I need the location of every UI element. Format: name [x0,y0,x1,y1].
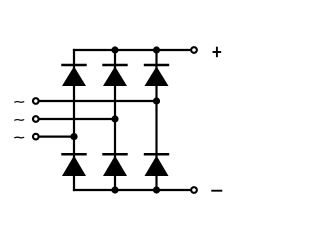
diode upper 2 [102,65,127,86]
junction dot: top rail / leg 2 [111,46,118,53]
wire: AC phase 3 horizontal [39,136,75,138]
label: ~ AC symbol 1 [14,101,24,104]
terminal: DC + output [191,47,197,53]
junction dot: AC phase 3 / leg 1 [70,133,77,140]
wire: top DC (+) rail [73,49,191,51]
terminal: AC input 3 [33,134,39,140]
junction dot: AC phase 2 / leg 2 [111,115,118,122]
diode upper 1 [61,65,86,86]
junction dot: top rail / leg 3 [153,46,160,53]
junction dot: bottom rail / leg 2 [111,186,118,193]
wire: bottom DC (-) rail [73,189,191,191]
junction dot: bottom rail / leg 3 [153,186,160,193]
terminal: DC - output [191,187,197,193]
terminal: AC input 2 [33,116,39,122]
label: + polarity [213,47,222,58]
label: ~ AC symbol 2 [14,119,24,122]
diode upper 3 [144,65,169,86]
diode lower 3 [144,154,169,176]
wire: leg 1 vertical [73,49,75,191]
label: ~ AC symbol 3 [14,136,24,139]
wire: leg 2 vertical [114,50,116,190]
wire: leg 3 vertical [155,50,157,190]
diode lower 2 [102,154,127,176]
wire: AC phase 2 horizontal [39,118,116,120]
terminal: AC input 1 [33,98,39,104]
label: - polarity [211,190,222,192]
diode lower 1 [61,154,86,176]
junction dot: AC phase 1 / leg 3 [153,97,160,104]
wire: AC phase 1 horizontal [39,100,157,102]
